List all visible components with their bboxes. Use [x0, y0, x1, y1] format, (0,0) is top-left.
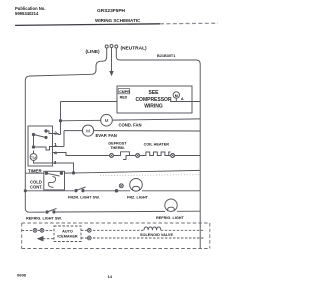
wire row G refrigerator light circuit: [29, 211, 200, 212]
defrost coil heater R1 square-wave element: [140, 152, 171, 156]
wire compressor out to neutral bus: [170, 101, 200, 103]
wire dashed solenoid to bus: [161, 229, 205, 231]
header publication number text: [15, 6, 45, 16]
svg-text:GRS23F5PH: GRS23F5PH: [97, 8, 126, 14]
svg-text:B21B30T1: B21B30T1: [157, 54, 175, 58]
defrost connector X2: [136, 154, 140, 158]
junction dot before freezer lamp: [115, 190, 118, 193]
svg-text:TIMER: TIMER: [28, 169, 42, 174]
wire row A: V1 to compressor box: [61, 101, 118, 103]
svg-text:14: 14: [108, 274, 113, 279]
wire dashed icemaker to solenoid: [81, 229, 144, 231]
svg-text:A: A: [181, 97, 184, 101]
defrost connector X1: [110, 154, 114, 158]
svg-text:SOLENOID VALVE: SOLENOID VALVE: [140, 233, 173, 237]
compressor block box U1: [117, 86, 192, 113]
refrigerator light switch S3: [46, 208, 57, 213]
svg-text:5995340214: 5995340214: [15, 11, 39, 16]
compressor motor symbol M3: [173, 92, 179, 98]
junction dot line bus row F: [24, 190, 26, 192]
header rule dashed part: [160, 22, 218, 25]
compressor block inner labels: [118, 89, 184, 110]
wire line-side S-curve from plug to left bus: [25, 57, 106, 81]
plug prong L (line): [105, 45, 108, 57]
motor evaporator fan M2: [82, 125, 93, 136]
svg-text:SEE: SEE: [148, 90, 159, 96]
timer box TD1: [28, 126, 53, 166]
wire neutral-side S-curve from plug to right bus: [116, 57, 200, 65]
svg-text:M: M: [105, 118, 109, 123]
wire terminal 4 stub to defrost row: [53, 153, 110, 156]
junction dot row B on V1: [59, 120, 61, 122]
right bus (neutral) vertical: [199, 65, 201, 249]
wire terminal 1 stub to V2: [53, 146, 65, 148]
svg-text:DEFROST: DEFROST: [108, 141, 127, 145]
icemaker connector X5: [33, 229, 37, 233]
svg-text:FRZ. LIGHT: FRZ. LIGHT: [127, 196, 149, 200]
wire line bus to cold control: [25, 172, 44, 174]
svg-text:RED: RED: [120, 96, 128, 100]
optional-section dashed enclosure left edge: [21, 223, 23, 249]
icemaker fill-tube arrow: [38, 237, 54, 241]
left bus (line) vertical: [25, 81, 29, 213]
icemaker dashed box A1: [54, 226, 81, 242]
svg-text:COND. FAN: COND. FAN: [119, 123, 142, 128]
ground arrow: [110, 71, 114, 76]
motor condenser fan M1: [101, 114, 113, 126]
wire row B: condenser fan row: [61, 119, 201, 121]
node V1 vertical junction (timer 2 to compressor feed): [60, 102, 62, 135]
icemaker connector X8: [87, 236, 91, 240]
plug prong N (neutral): [115, 45, 118, 57]
optional-section dashed enclosure top edge: [22, 222, 210, 224]
cold control thermostat S1 box: [44, 171, 65, 190]
wire row C: evaporator fan row from timer terminal 1: [64, 130, 200, 132]
timer internal common wire: [32, 135, 52, 151]
svg-text:WIRING SCHEMATIC: WIRING SCHEMATIC: [95, 18, 141, 23]
timer motor TM: [30, 150, 52, 163]
freezer lamp connector X4: [119, 184, 123, 188]
wire heater to neutral bus: [175, 155, 201, 157]
svg-text:REFRIG. LIGHT: REFRIG. LIGHT: [156, 216, 185, 220]
icemaker connector X7: [87, 228, 91, 232]
svg-text:TM: TM: [31, 156, 36, 160]
wire terminal 2 stub to V1: [53, 134, 61, 135]
svg-text:(NEUTRAL): (NEUTRAL): [121, 46, 148, 52]
svg-text:CONT.: CONT.: [30, 185, 43, 190]
svg-text:4: 4: [54, 151, 57, 156]
junction dot terminal3/row E: [72, 172, 74, 174]
freezer light lamp DS1: [130, 179, 143, 192]
svg-text:(LINE): (LINE): [86, 49, 101, 55]
svg-text:M: M: [175, 94, 178, 98]
wire dashed icemaker feed left: [22, 229, 54, 231]
compressor tag CMPR: [118, 89, 130, 94]
svg-text:REFRIG. LIGHT SW.: REFRIG. LIGHT SW.: [26, 217, 62, 221]
timer contact arm 1-2: [32, 130, 52, 139]
freezer light switch S2: [75, 187, 86, 192]
cold control sensing element: [48, 177, 55, 188]
optional-section dashed enclosure bottom edge: [22, 248, 210, 250]
wire row F freezer light circuit from line bus: [25, 190, 200, 192]
svg-text:ICEMAKER: ICEMAKER: [57, 235, 78, 239]
svg-text:M: M: [86, 129, 90, 134]
heater connector X3: [171, 154, 175, 158]
svg-text:COIL HEATER: COIL HEATER: [144, 142, 170, 146]
svg-text:AUTO: AUTO: [62, 230, 73, 234]
svg-text:CMPR: CMPR: [119, 90, 130, 94]
svg-text:THERM.: THERM.: [110, 146, 125, 150]
wire dashed icemaker neutral return: [81, 237, 205, 239]
svg-text:COMPRESSOR: COMPRESSOR: [135, 97, 172, 103]
svg-text:WIRING: WIRING: [144, 103, 163, 109]
refrigerator light lamp DS2: [165, 199, 177, 211]
optional-section dashed enclosure right edge: [209, 223, 211, 249]
defrost thermostat DT1: [114, 152, 136, 160]
wire terminal 3 stub down to row E: [53, 163, 74, 173]
water solenoid valve coil L1: [144, 227, 161, 230]
svg-text:0608: 0608: [17, 273, 27, 278]
cold control contacts and arm: [45, 172, 62, 176]
header rule solid part: [15, 24, 160, 26]
wire motor to box edge: [175, 98, 177, 101]
node V2 vertical (terminal 1 riser): [63, 131, 65, 147]
svg-text:FRZR. LIGHT SW.: FRZR. LIGHT SW.: [68, 196, 100, 200]
faint fold line: [100, 175, 199, 176]
svg-text:EVAP. FAN: EVAP. FAN: [96, 133, 117, 138]
icemaker connector X6: [40, 229, 44, 233]
wire row E timer motor neutral return: [65, 170, 201, 173]
plug prong G (ground): [110, 45, 113, 72]
